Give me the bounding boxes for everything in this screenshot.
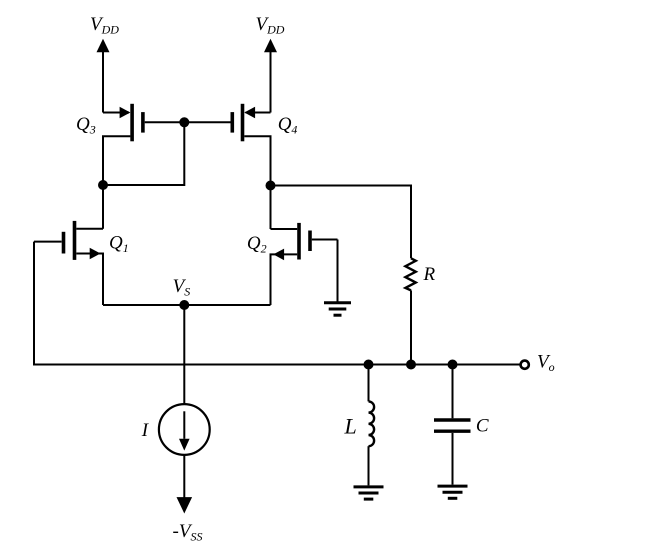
- svg-text:C: C: [476, 416, 489, 437]
- Q3 drain wire: [103, 136, 130, 185]
- Q4 channel bar: [241, 104, 245, 142]
- transistor Q3: [103, 104, 184, 185]
- Q2 channel bar: [297, 223, 301, 260]
- Q3 gate bar: [141, 112, 145, 133]
- node Q3 drain dot: [98, 180, 108, 190]
- ground at Q2 gate: [324, 303, 351, 315]
- Q2 drain wire: [271, 228, 298, 230]
- Q4 source wire: [246, 112, 271, 114]
- terminal Vo circle: [521, 361, 529, 369]
- wire Q4 drain to Q2 drain: [270, 186, 272, 230]
- Q2 source wire: [271, 254, 298, 305]
- Q4 drain wire: [244, 136, 270, 185]
- svg-text:R: R: [423, 264, 436, 285]
- node gate junction dot: [179, 117, 189, 127]
- Q3 source arrow: [120, 107, 131, 119]
- wire Q4 drain to R top: [271, 186, 412, 259]
- power arrow -VSS: [177, 497, 193, 513]
- Q2 source arrow: [273, 249, 284, 261]
- Q1 source wire: [76, 254, 103, 306]
- wire Q3 drain to Q1 drain: [102, 185, 104, 229]
- current source I circle: [159, 404, 210, 455]
- wire output feedback bottom: [34, 242, 520, 365]
- Q1 source arrow: [90, 248, 101, 260]
- resistor R: [405, 258, 415, 290]
- node C dot: [448, 360, 458, 370]
- wire VS row: [103, 304, 271, 306]
- node L dot: [364, 360, 374, 370]
- Q2 gate wire: [312, 239, 338, 241]
- ground at L: [354, 487, 384, 499]
- wire VS to current source: [183, 305, 185, 405]
- Q1 drain wire: [76, 228, 103, 230]
- svg-text:L: L: [344, 414, 357, 439]
- Q1 gate bar: [62, 232, 66, 254]
- power arrow VDD2: [264, 39, 277, 113]
- Q3 gate wire: [145, 121, 185, 123]
- transistor Q1: [34, 221, 103, 305]
- transistor Q2: [271, 223, 338, 305]
- node Q4 drain dot: [266, 181, 276, 191]
- Q1 channel bar: [73, 221, 77, 260]
- Q4 gate bar: [231, 112, 235, 133]
- Q4 source arrow: [244, 107, 255, 119]
- wire R bottom: [410, 290, 412, 364]
- Q1 gate wire: [34, 241, 62, 243]
- node VS dot: [179, 300, 189, 310]
- Q3 source wire: [103, 112, 129, 114]
- wire Q2 gate to ground: [337, 240, 339, 302]
- power arrow VDD1: [97, 39, 110, 113]
- ground at C: [438, 486, 468, 498]
- inductor L: [369, 365, 375, 486]
- node R dot: [406, 360, 416, 370]
- wire gate junction to mirror row: [103, 122, 184, 185]
- Q2 gate bar: [308, 231, 312, 252]
- transistor Q4: [184, 104, 270, 186]
- current source arrow: [179, 411, 190, 450]
- Q4 gate wire: [184, 121, 230, 123]
- wire current source to -VSS: [183, 455, 185, 498]
- Q3 channel bar: [130, 104, 134, 142]
- capacitor C: [434, 365, 471, 485]
